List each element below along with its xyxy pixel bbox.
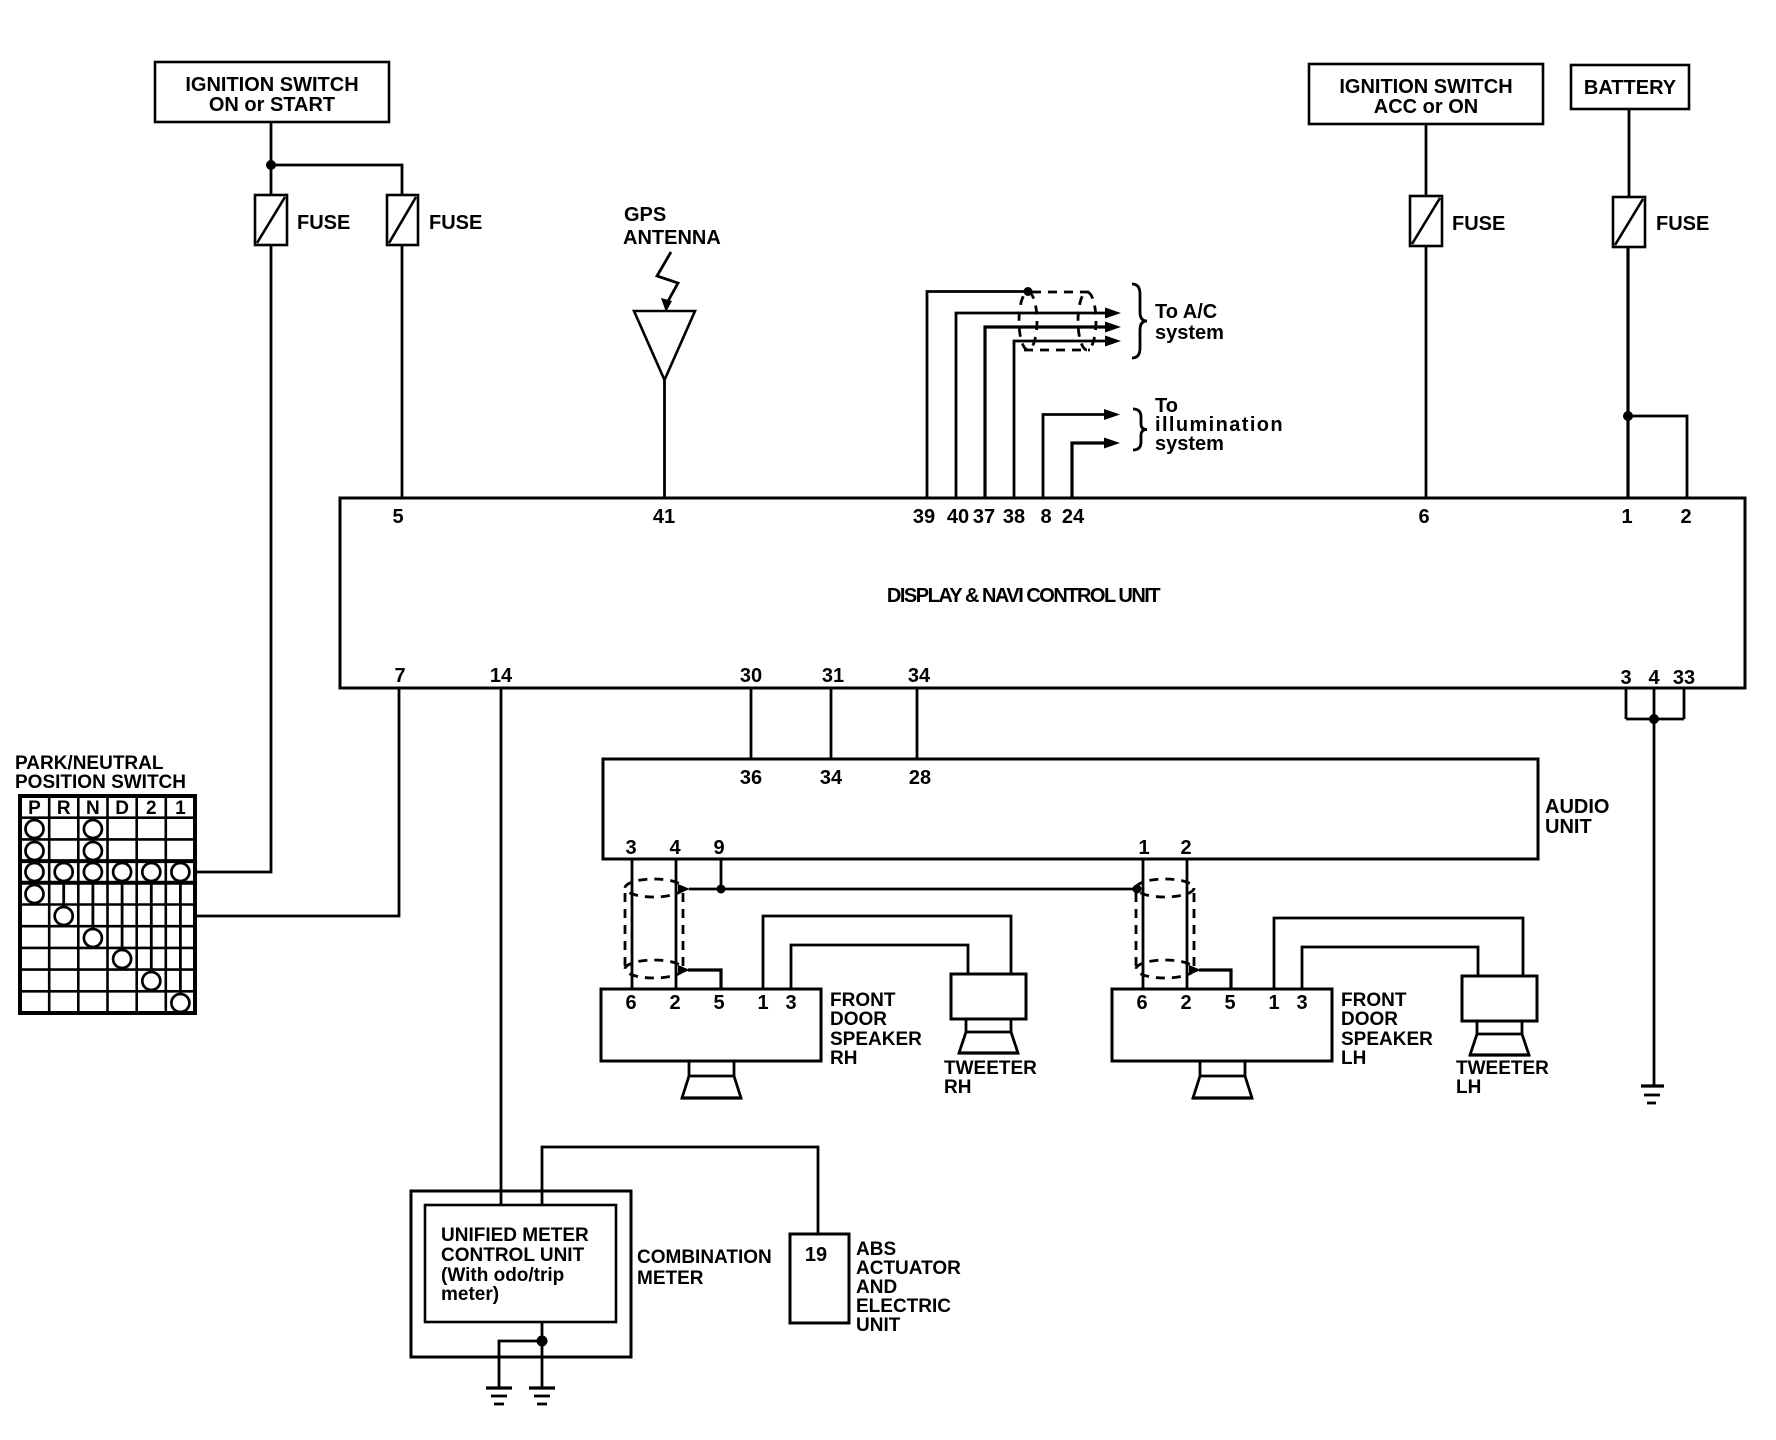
svg-text:36: 36 — [740, 767, 762, 789]
svg-text:3: 3 — [1620, 667, 1631, 689]
wire battery to fuse F4 — [1628, 109, 1631, 197]
switch contacts column N — [84, 820, 102, 947]
svg-text:7: 7 — [394, 665, 405, 687]
svg-text:2: 2 — [1180, 992, 1191, 1014]
svg-text:N: N — [86, 798, 100, 819]
wire pin 31 to audio 34 — [830, 688, 833, 759]
svg-text:5: 5 — [1224, 992, 1235, 1014]
switch contacts column R — [55, 863, 73, 925]
svg-text:2: 2 — [1180, 837, 1191, 859]
svg-text:IGNITION SWITCH: IGNITION SWITCH — [1339, 76, 1512, 98]
park/neutral position switch grid — [20, 796, 195, 1013]
wire speaker LH 1 to tweeter — [1274, 918, 1523, 989]
wire pins 3,4,33 joined — [1626, 688, 1684, 719]
shielded cable symbol RH — [625, 879, 690, 978]
wire speaker LH 3 to tweeter — [1302, 947, 1478, 989]
fuse F3 — [1410, 196, 1442, 246]
svg-text:DISPLAY & NAVI CONTROL UNIT: DISPLAY & NAVI CONTROL UNIT — [887, 585, 1160, 607]
svg-text:(With odo/trip: (With odo/trip — [441, 1265, 564, 1286]
display & navi control unit box — [340, 498, 1745, 688]
svg-text:14: 14 — [490, 665, 513, 687]
label AUDIO UNIT — [1545, 796, 1609, 838]
wire antenna to pin 41 — [663, 380, 666, 498]
svg-text:38: 38 — [1003, 506, 1025, 528]
svg-text:meter): meter) — [441, 1284, 499, 1305]
ABS actuator box — [790, 1234, 849, 1323]
svg-text:33: 33 — [1673, 667, 1695, 689]
svg-text:41: 41 — [653, 506, 675, 528]
wire combination meter to ABS unit — [542, 1147, 818, 1234]
label PARK/NEUTRAL POSITION SWITCH — [15, 753, 186, 793]
brace A/C — [1132, 284, 1147, 358]
wire pin 40 to A/C — [956, 308, 1121, 499]
audio unit box — [603, 759, 1538, 859]
wire audio 2 to speaker LH 2 — [1186, 859, 1189, 989]
tweeter LH symbol — [1462, 976, 1537, 1055]
wire ignition ACC to fuse F3 — [1425, 124, 1428, 196]
svg-text:ABS: ABS — [856, 1239, 896, 1260]
svg-text:37: 37 — [973, 506, 995, 528]
svg-text:UNIT: UNIT — [856, 1315, 901, 1336]
wire fuse F3 to pin 6 — [1425, 246, 1428, 498]
svg-text:5: 5 — [713, 992, 724, 1014]
svg-text:6: 6 — [1136, 992, 1147, 1014]
wire fuse F1 to park/neutral switch row C — [196, 245, 271, 872]
shielded cable symbol LH — [1136, 879, 1201, 978]
wire shield RH to speaker pin 5 — [688, 970, 721, 989]
speaker LH cone — [1192, 1061, 1253, 1098]
ground left meter — [486, 1388, 512, 1404]
svg-text:SPEAKER: SPEAKER — [1341, 1029, 1433, 1050]
label GPS ANTENNA — [623, 204, 721, 249]
label To A/C system — [1155, 301, 1224, 344]
svg-text:24: 24 — [1062, 506, 1085, 528]
svg-text:5: 5 — [392, 506, 403, 528]
label ABS ACTUATOR AND ELECTRIC UNIT — [856, 1239, 961, 1336]
svg-text:FRONT: FRONT — [830, 990, 896, 1011]
svg-text:IGNITION SWITCH: IGNITION SWITCH — [185, 74, 358, 96]
svg-text:UNIFIED METER: UNIFIED METER — [441, 1225, 589, 1246]
wire speaker RH 1 to tweeter — [763, 916, 1011, 989]
svg-text:COMBINATION: COMBINATION — [637, 1247, 772, 1268]
tweeter RH symbol — [951, 974, 1026, 1053]
wire pin 38 to A/C — [1014, 336, 1121, 499]
wire pin 24 to illumination — [1072, 438, 1120, 499]
svg-text:DOOR: DOOR — [830, 1009, 887, 1030]
svg-text:D: D — [115, 798, 129, 819]
svg-text:2: 2 — [669, 992, 680, 1014]
svg-text:POSITION SWITCH: POSITION SWITCH — [15, 772, 186, 793]
node shield drain junction — [1024, 287, 1033, 296]
combination meter outer box — [411, 1191, 631, 1357]
wire speaker RH 3 to tweeter — [791, 945, 968, 989]
wire ignition ON to fuse F1 — [270, 122, 273, 195]
svg-text:34: 34 — [820, 767, 843, 789]
svg-text:6: 6 — [1418, 506, 1429, 528]
node pins 3/4/33 — [1649, 714, 1659, 724]
svg-text:RH: RH — [944, 1077, 971, 1098]
GPS antenna pointer arrow — [657, 252, 678, 312]
node meter ground junction — [537, 1336, 548, 1347]
switch contacts column 1 — [171, 863, 189, 1012]
wire fuse F4 to pin 1 — [1626, 247, 1629, 498]
wire audio 1 to speaker LH 6 — [1142, 859, 1145, 989]
svg-text:TWEETER: TWEETER — [1456, 1058, 1549, 1079]
brace illumination — [1133, 409, 1147, 450]
node battery branch — [1623, 411, 1633, 421]
svg-text:CONTROL UNIT: CONTROL UNIT — [441, 1245, 585, 1266]
svg-text:9: 9 — [713, 837, 724, 859]
svg-text:40: 40 — [947, 506, 969, 528]
svg-text:RH: RH — [830, 1048, 857, 1069]
switch contacts column P — [26, 820, 44, 903]
GPS antenna symbol — [634, 311, 695, 380]
svg-text:UNIT: UNIT — [1545, 816, 1592, 838]
svg-text:19: 19 — [805, 1244, 827, 1266]
wire pin 34 to audio 28 — [916, 688, 919, 759]
svg-text:METER: METER — [637, 1268, 704, 1289]
svg-text:ON or START: ON or START — [209, 94, 335, 116]
svg-text:AUDIO: AUDIO — [1545, 796, 1609, 818]
wire branch to pin 2 — [1628, 416, 1687, 498]
label To illumination system — [1155, 395, 1284, 455]
label TWEETER LH — [1456, 1058, 1549, 1098]
label FRONT DOOR SPEAKER RH — [830, 990, 922, 1069]
wire audio 4 to speaker RH 2 — [675, 859, 678, 989]
wire meter to grounds — [499, 1322, 542, 1388]
svg-text:DOOR: DOOR — [1341, 1009, 1398, 1030]
svg-text:1: 1 — [1621, 506, 1632, 528]
svg-text:34: 34 — [908, 665, 931, 687]
ground right meter — [529, 1388, 555, 1404]
svg-text:1: 1 — [175, 798, 186, 819]
label FRONT DOOR SPEAKER LH — [1341, 990, 1433, 1069]
svg-text:6: 6 — [625, 992, 636, 1014]
svg-text:39: 39 — [913, 506, 935, 528]
ignition switch ON or START box — [155, 62, 389, 122]
wire pin 30 to audio 36 — [750, 688, 753, 759]
wire pin 37 to A/C — [985, 322, 1121, 499]
svg-text:31: 31 — [822, 665, 844, 687]
label TWEETER RH — [944, 1058, 1037, 1098]
unified meter control unit box — [425, 1205, 616, 1322]
svg-text:1: 1 — [1268, 992, 1279, 1014]
svg-text:3: 3 — [1296, 992, 1307, 1014]
svg-text:ANTENNA: ANTENNA — [623, 227, 721, 249]
svg-text:1: 1 — [757, 992, 768, 1014]
svg-text:1: 1 — [1138, 837, 1149, 859]
node audio 9 drain junction — [717, 885, 726, 894]
svg-text:4: 4 — [669, 837, 681, 859]
svg-text:2: 2 — [1680, 506, 1691, 528]
svg-text:ACTUATOR: ACTUATOR — [856, 1258, 961, 1279]
svg-text:FUSE: FUSE — [429, 212, 482, 234]
ground right — [1641, 1086, 1664, 1103]
svg-text:BATTERY: BATTERY — [1584, 77, 1677, 99]
wire fuse F2 to pin 5 — [401, 245, 404, 498]
node shield LH connection — [1133, 885, 1142, 894]
switch contacts column 2 — [142, 863, 160, 990]
wire pin 14 to combination meter — [500, 688, 503, 1205]
svg-text:FUSE: FUSE — [1452, 213, 1505, 235]
fuse F2 — [387, 195, 418, 245]
wire branch to fuse F2 — [271, 165, 402, 195]
fuse F1 — [255, 195, 287, 245]
svg-text:system: system — [1155, 433, 1224, 455]
shielded cable symbol A/C — [1019, 292, 1096, 350]
wire pin 39 shield drain — [927, 292, 1028, 499]
ignition switch ACC or ON box — [1309, 64, 1543, 124]
wire shield LH to speaker pin 5 — [1199, 970, 1231, 989]
fuse F4 — [1613, 197, 1645, 247]
front door speaker LH box — [1112, 989, 1332, 1061]
wire pin 8 to illumination — [1043, 409, 1120, 498]
battery box — [1571, 65, 1689, 109]
svg-text:P: P — [28, 798, 41, 819]
svg-text:2: 2 — [146, 798, 157, 819]
wire audio 3 to speaker RH 6 — [631, 859, 634, 989]
wire audio 9 shield drain — [720, 859, 723, 889]
svg-text:R: R — [57, 798, 71, 819]
svg-text:8: 8 — [1040, 506, 1051, 528]
svg-text:FRONT: FRONT — [1341, 990, 1407, 1011]
node junction below ignition ON — [266, 160, 276, 170]
front door speaker RH box — [601, 989, 821, 1061]
svg-text:To A/C: To A/C — [1155, 301, 1217, 323]
svg-text:PARK/NEUTRAL: PARK/NEUTRAL — [15, 753, 164, 774]
svg-text:ELECTRIC: ELECTRIC — [856, 1296, 951, 1317]
svg-text:FUSE: FUSE — [297, 212, 350, 234]
svg-text:GPS: GPS — [624, 204, 666, 226]
svg-text:TWEETER: TWEETER — [944, 1058, 1037, 1079]
svg-text:3: 3 — [785, 992, 796, 1014]
svg-text:LH: LH — [1341, 1048, 1366, 1069]
svg-text:4: 4 — [1648, 667, 1660, 689]
wire to ground right — [1653, 719, 1656, 1086]
switch contacts column D — [113, 863, 131, 968]
label COMBINATION METER — [637, 1247, 772, 1289]
svg-text:LH: LH — [1456, 1077, 1481, 1098]
svg-text:system: system — [1155, 322, 1224, 344]
svg-text:FUSE: FUSE — [1656, 213, 1709, 235]
svg-text:AND: AND — [856, 1277, 897, 1298]
svg-text:3: 3 — [625, 837, 636, 859]
svg-text:30: 30 — [740, 665, 762, 687]
svg-text:ACC or ON: ACC or ON — [1374, 96, 1478, 118]
wire shield drain RH to LH — [689, 888, 1136, 891]
svg-text:28: 28 — [909, 767, 931, 789]
speaker RH cone — [681, 1061, 742, 1098]
wire pin 7 to park/neutral switch — [196, 688, 399, 916]
svg-text:SPEAKER: SPEAKER — [830, 1029, 922, 1050]
